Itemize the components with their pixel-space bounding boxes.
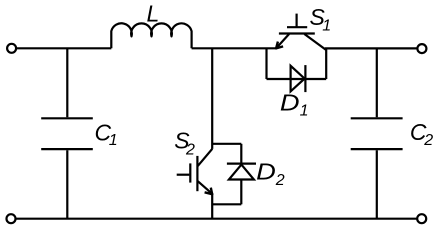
- transistor S2 collector diagonal: [198, 149, 213, 167]
- diode D1 cathode bar: [304, 65, 306, 92]
- transistor S1 emitter diagonal: [276, 34, 289, 48]
- svg-text:D: D: [280, 90, 300, 116]
- wire top rail middle: [192, 47, 277, 49]
- svg-text:L: L: [147, 0, 160, 26]
- terminal top-right: [417, 44, 426, 53]
- terminal bottom-left: [7, 214, 16, 223]
- svg-text:1: 1: [300, 102, 309, 119]
- wire D1 loop bottom: [267, 78, 327, 80]
- transistor S2 emitter arrowhead: [205, 188, 213, 195]
- svg-text:2: 2: [185, 142, 195, 159]
- transistor S2 emitter diagonal: [198, 181, 212, 194]
- inductor L: [111, 23, 191, 48]
- transistor S1 emitter arrowhead: [276, 42, 283, 49]
- diode D2 top lead: [240, 144, 242, 164]
- capacitor C1 plates: [41, 118, 93, 149]
- wire D1 loop right vertical: [325, 49, 327, 80]
- transistor S1 gate bar: [287, 26, 307, 28]
- node junction to S2 branch: [211, 48, 213, 149]
- transistor S1 body bar: [279, 32, 315, 34]
- diode D1 triangle: [291, 66, 305, 92]
- svg-text:D: D: [256, 159, 276, 185]
- wire bottom rail: [16, 218, 416, 220]
- svg-text:1: 1: [109, 132, 118, 149]
- terminal top-left: [7, 44, 16, 53]
- transistor S1 gate stub: [296, 14, 298, 28]
- transistor S2 gate bar: [189, 163, 191, 182]
- transistor S1 collector diagonal: [304, 34, 326, 50]
- svg-text:1: 1: [322, 18, 331, 35]
- wire D1 loop left vertical: [265, 48, 267, 79]
- wire top rail left: [17, 47, 112, 49]
- svg-text:2: 2: [423, 132, 433, 149]
- svg-text:2: 2: [275, 172, 285, 189]
- diode D2 triangle: [229, 165, 254, 180]
- capacitor C1 leads: [66, 48, 68, 218]
- transistor S2 gate lead: [177, 174, 190, 176]
- capacitor C2 leads: [376, 48, 378, 218]
- terminal bottom-right: [417, 214, 426, 223]
- wire S2 lower vertical: [211, 193, 213, 218]
- wire S2/D2 top node: [212, 143, 241, 145]
- wire top rail right: [325, 47, 418, 49]
- wire S2/D2 bottom node: [212, 203, 241, 205]
- capacitor C2 plates: [351, 118, 403, 149]
- transistor S2 body bar: [196, 156, 198, 191]
- diode D2 cathode bar: [227, 163, 256, 165]
- diode D2 bottom lead: [240, 180, 242, 205]
